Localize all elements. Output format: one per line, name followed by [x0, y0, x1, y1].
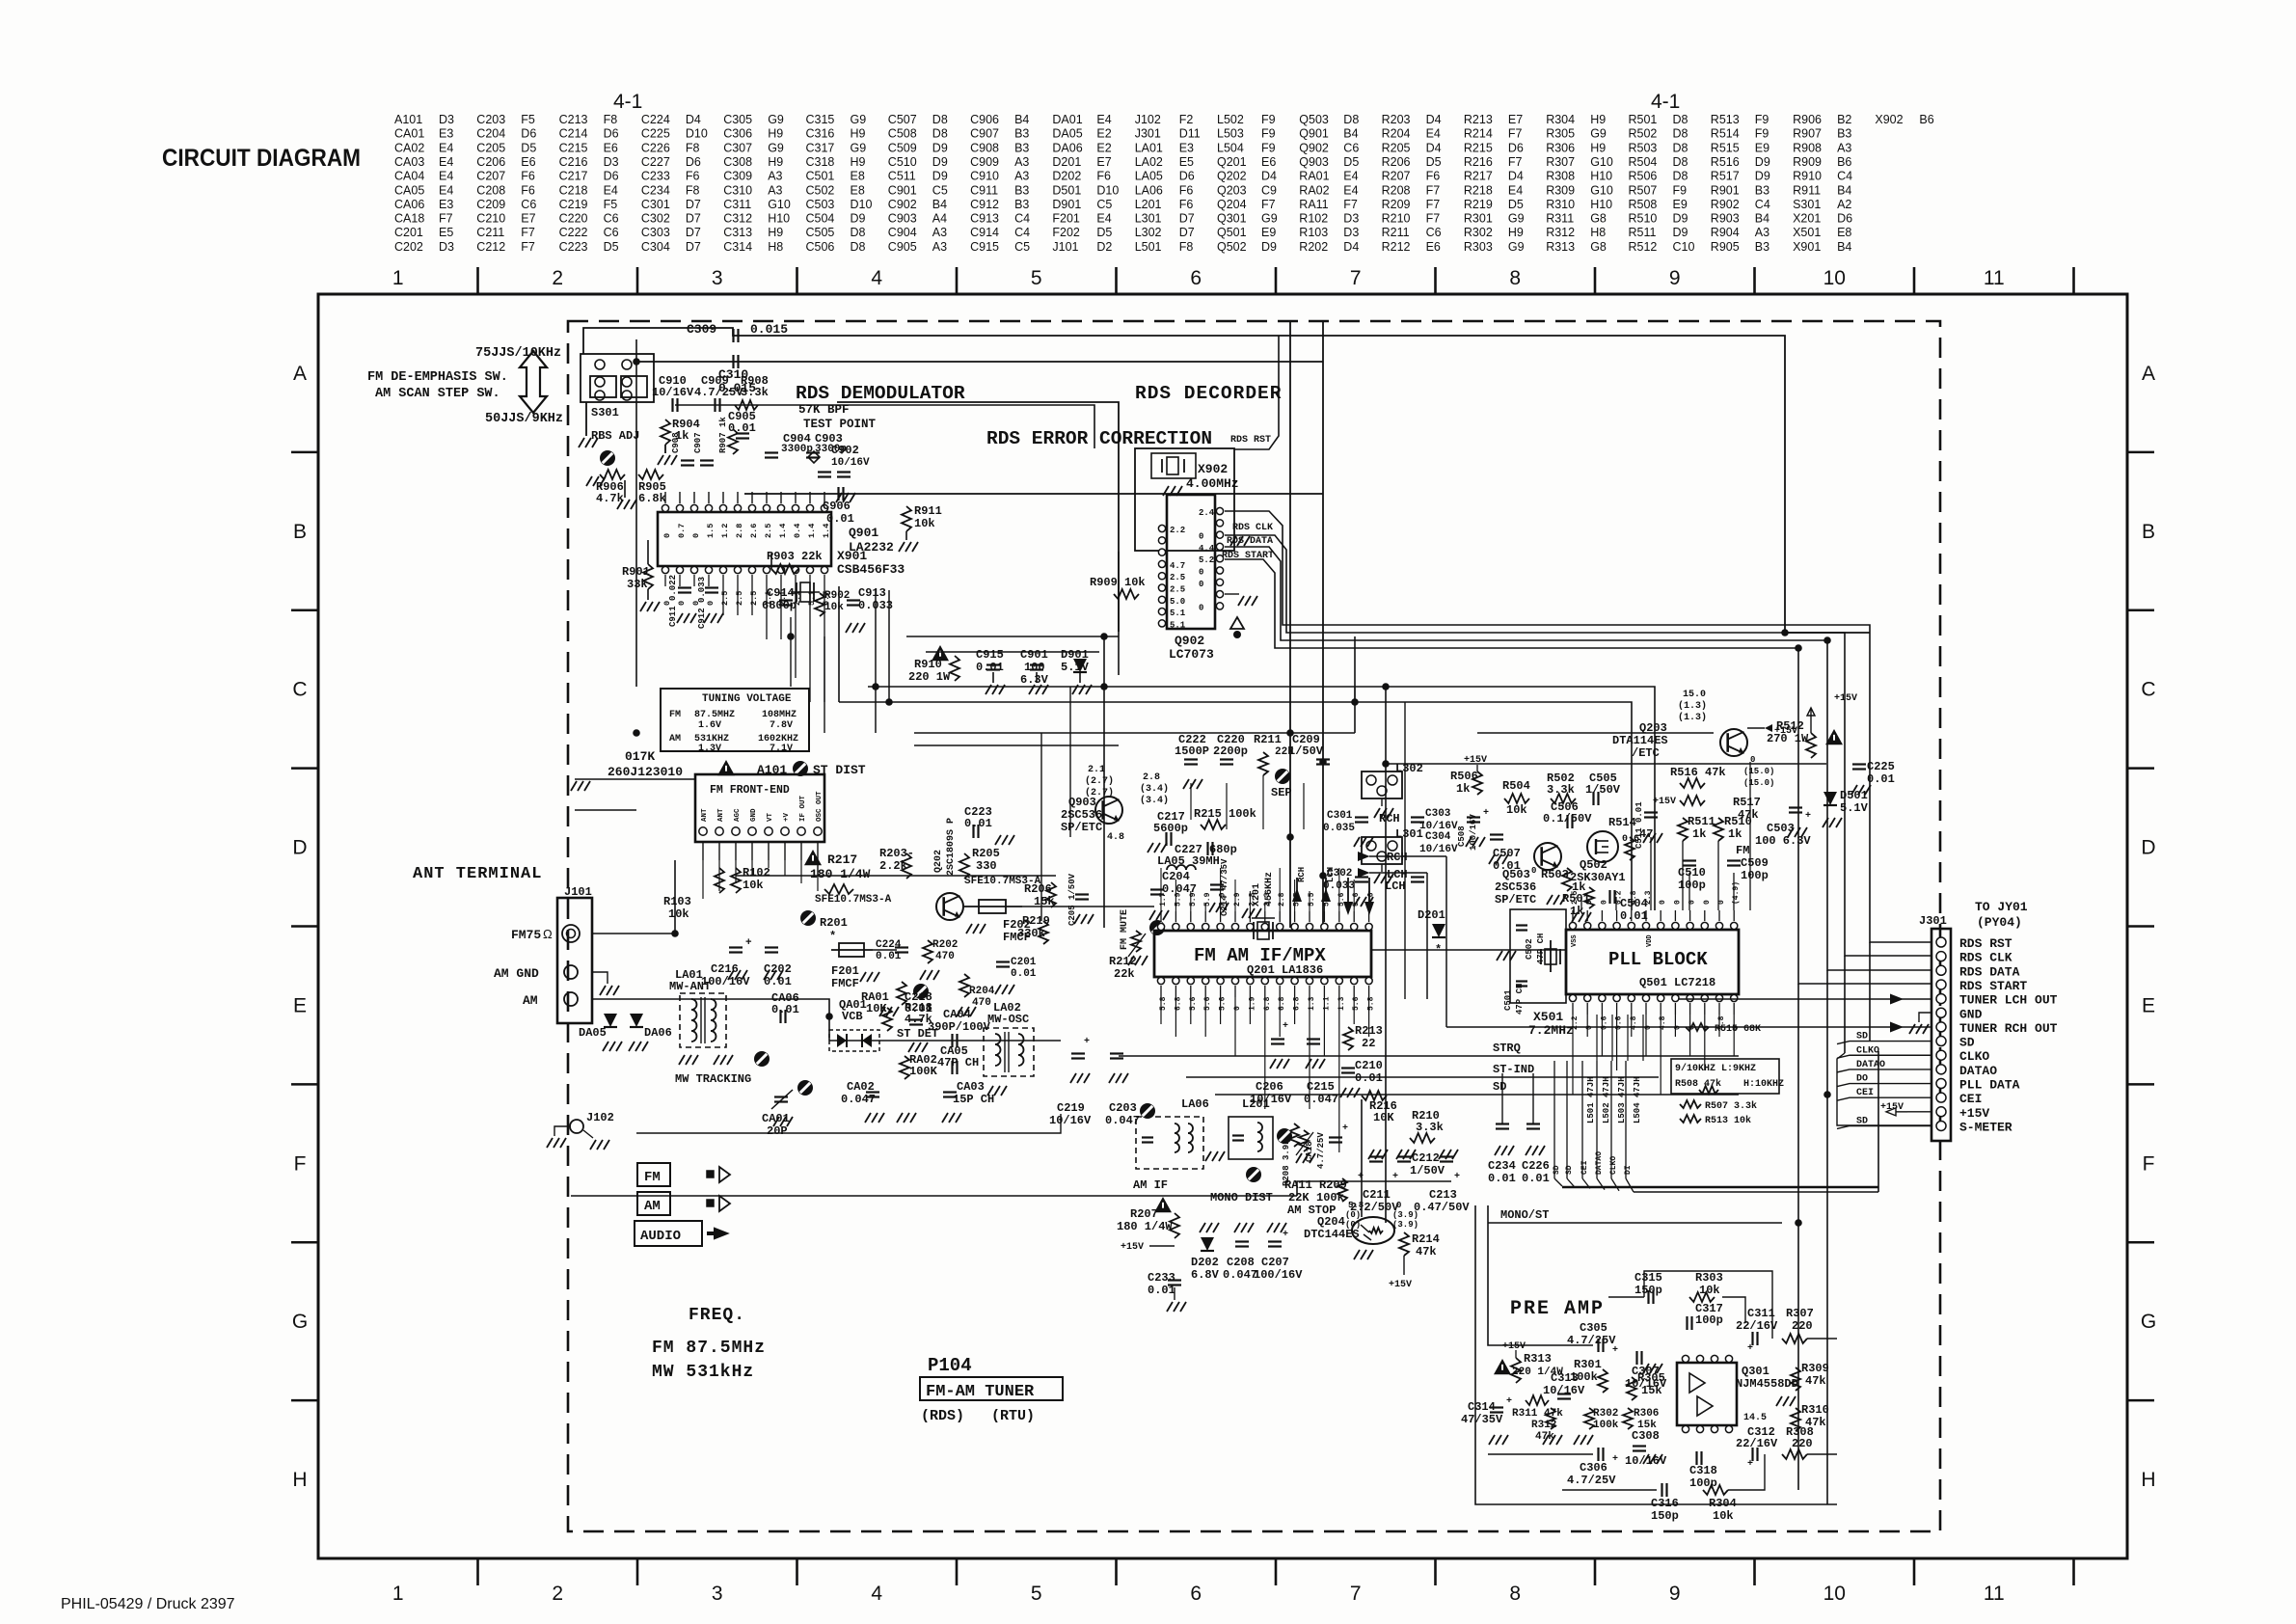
svg-text:R307: R307 [1546, 155, 1575, 169]
capacitor CA04 [928, 1008, 991, 1047]
svg-text:Ω: Ω [543, 927, 553, 941]
svg-text:1/50V: 1/50V [1585, 783, 1621, 797]
svg-text:B4: B4 [932, 198, 947, 211]
svg-text:R901: R901 [1711, 183, 1740, 197]
svg-text:CA18: CA18 [394, 212, 424, 226]
svg-text:F8: F8 [686, 141, 700, 154]
svg-text:R906: R906 [1793, 113, 1822, 126]
svg-text:0.01: 0.01 [1522, 1172, 1550, 1185]
svg-text:R214: R214 [1464, 127, 1493, 141]
svg-text:+15V: +15V [1834, 693, 1857, 704]
svg-text:(15.0): (15.0) [1743, 778, 1774, 788]
svg-text:11: 11 [1984, 1583, 2005, 1605]
capacitor C313 [1543, 1371, 1585, 1399]
resistor R507 [1680, 1100, 1757, 1112]
capacitor CA06 [771, 991, 799, 1023]
svg-text:1500P: 1500P [1175, 744, 1209, 758]
resistor R904 [658, 418, 700, 465]
svg-text:+: + [1283, 1230, 1288, 1240]
svg-text:H10: H10 [768, 212, 790, 226]
connector J101 [494, 885, 592, 1023]
transistor Q502 2SK30AY1 FET [1570, 831, 1639, 884]
svg-text:F6: F6 [521, 183, 535, 197]
svg-text:G9: G9 [851, 113, 867, 126]
svg-text:C905: C905 [888, 240, 917, 254]
svg-text:FM MUTE: FM MUTE [1120, 909, 1130, 950]
svg-text:FREQ.: FREQ. [689, 1306, 745, 1325]
svg-text:R511: R511 [1688, 815, 1715, 828]
transistor Q204 DTC144ES [1304, 1201, 1418, 1259]
svg-text:FM75: FM75 [511, 928, 541, 942]
svg-text:15P CH: 15P CH [953, 1093, 994, 1106]
wire SD bundle below PLL [1553, 1051, 1878, 1192]
capacitor C908 [671, 432, 694, 465]
svg-text:C208: C208 [476, 183, 505, 197]
svg-text:R512: R512 [1629, 240, 1658, 254]
svg-text:PRE AMP: PRE AMP [1510, 1298, 1605, 1320]
svg-text:+15V: +15V [1121, 1242, 1144, 1253]
capacitor C901 [1020, 648, 1049, 694]
svg-text:B3: B3 [1837, 127, 1851, 141]
svg-text:CA03: CA03 [394, 155, 424, 169]
svg-text:C318: C318 [806, 155, 835, 169]
svg-text:4: 4 [871, 1583, 882, 1605]
wire long bottom 2 [636, 1114, 1061, 1133]
capacitor C227 [1175, 842, 1237, 856]
svg-text:C205 1/50V: C205 1/50V [1067, 873, 1077, 926]
svg-text:Q901: Q901 [1299, 127, 1329, 141]
svg-text:C501: C501 [1503, 989, 1513, 1011]
svg-text:CEI: CEI [1580, 1160, 1589, 1175]
svg-text:D6: D6 [1179, 170, 1195, 183]
svg-text:3.3k: 3.3k [1547, 783, 1575, 797]
svg-text:C223: C223 [559, 240, 588, 254]
svg-text:R511: R511 [1629, 226, 1657, 239]
crystal X201 456KHz [1242, 872, 1275, 939]
wire vertical 1457 [1404, 702, 1406, 999]
svg-text:10k: 10k [824, 602, 844, 613]
wire horizontal mid 1 [868, 687, 1655, 910]
capacitor C217 [1148, 810, 1188, 853]
svg-text:C504: C504 [1620, 897, 1648, 910]
resistor R301 [1570, 1358, 1607, 1393]
svg-text:GND: GND [750, 808, 758, 822]
svg-text:X902: X902 [1198, 462, 1228, 476]
capacitor C503 [1755, 808, 1811, 849]
svg-text:TUNER LCH OUT: TUNER LCH OUT [1959, 993, 2058, 1008]
svg-text:5600p: 5600p [1153, 822, 1188, 835]
svg-text:D201: D201 [1418, 908, 1445, 922]
svg-text:5.1: 5.1 [1170, 609, 1186, 618]
wire long bottom 1 [571, 1195, 1297, 1197]
svg-text:100 6.3V: 100 6.3V [1755, 834, 1811, 848]
svg-text:R215: R215 [1464, 141, 1493, 154]
svg-text:GND: GND [1959, 1007, 1983, 1021]
svg-text:C226: C226 [641, 141, 670, 154]
capacitor C214 [1209, 858, 1229, 916]
wire Q204 collector vertical [1361, 1099, 1363, 1217]
svg-text:H: H [292, 1469, 307, 1491]
svg-text:2.5: 2.5 [764, 524, 773, 538]
resistor R213 C210 top [1340, 1024, 1383, 1097]
svg-text:0.01: 0.01 [1355, 1071, 1383, 1085]
svg-text:E8: E8 [1837, 226, 1851, 239]
svg-text:R301: R301 [1574, 1358, 1602, 1371]
resistor R215 [1194, 807, 1256, 829]
svg-text:5.6: 5.6 [1219, 996, 1228, 1011]
capacitor C306 [1567, 1448, 1618, 1487]
svg-text:CSB456F33: CSB456F33 [837, 562, 905, 577]
svg-text:D9: D9 [932, 141, 948, 154]
svg-text:4.00MHz: 4.00MHz [1186, 476, 1239, 491]
capacitor C202 [764, 948, 792, 989]
svg-text:C210: C210 [476, 212, 505, 226]
capacitor C303 [1411, 808, 1458, 832]
svg-text:1.6V: 1.6V [698, 720, 721, 731]
resistor R205 [959, 847, 1000, 879]
wire horizontal mid 4 [914, 744, 1119, 746]
svg-text:R503: R503 [1629, 141, 1658, 154]
svg-text:R218: R218 [1464, 183, 1493, 197]
svg-text:7: 7 [1350, 1583, 1362, 1605]
svg-text:X501: X501 [1533, 1010, 1563, 1024]
svg-text:2.5: 2.5 [735, 591, 744, 606]
wire AM stop bus [1297, 1181, 1451, 1196]
svg-text:C906: C906 [823, 500, 851, 513]
svg-text:180 1/4W: 180 1/4W [810, 867, 871, 881]
svg-text:F7: F7 [1426, 183, 1441, 197]
screw RBS ADJ [591, 429, 639, 466]
capacitor C201 [995, 957, 1037, 994]
svg-text:C908: C908 [970, 141, 999, 154]
svg-text:220: 220 [1792, 1437, 1813, 1450]
capacitor C223 [964, 805, 1014, 845]
svg-text:47/35V: 47/35V [1461, 1413, 1503, 1426]
svg-text:R905: R905 [1711, 240, 1740, 254]
svg-text:B2: B2 [1837, 113, 1851, 126]
svg-text:R513: R513 [1711, 113, 1740, 126]
svg-text:0.01: 0.01 [905, 1002, 932, 1015]
wire vertical bus 2 [1322, 322, 1324, 928]
svg-text:10K: 10K [866, 1002, 887, 1015]
svg-text:270 1W: 270 1W [1767, 732, 1809, 745]
svg-text:C218: C218 [559, 183, 588, 197]
coil can L201 [1229, 1097, 1273, 1182]
svg-text:R207: R207 [1382, 170, 1411, 183]
svg-text:B: B [293, 521, 307, 543]
svg-text:0.01: 0.01 [1867, 772, 1895, 786]
svg-text:D6: D6 [1508, 141, 1524, 154]
svg-text:R206: R206 [1382, 155, 1411, 169]
svg-text:0.035: 0.035 [1323, 823, 1355, 834]
svg-text:RA11: RA11 [1284, 1178, 1312, 1192]
svg-text:F9: F9 [1261, 141, 1276, 154]
svg-text:F6: F6 [521, 170, 535, 183]
svg-text:D8: D8 [1673, 113, 1688, 126]
svg-text:C201: C201 [1011, 957, 1037, 968]
switch S301 [581, 354, 654, 420]
resistor R210 [1410, 1109, 1444, 1143]
svg-text:F2: F2 [1179, 113, 1194, 126]
svg-text:F7: F7 [439, 212, 453, 226]
svg-text:D6: D6 [521, 127, 536, 141]
svg-text:E4: E4 [1426, 127, 1441, 141]
svg-text:180 1/4W: 180 1/4W [1117, 1220, 1173, 1233]
svg-text:8: 8 [1509, 1583, 1521, 1605]
svg-text:SD: SD [1565, 1165, 1574, 1175]
svg-text:10k: 10k [668, 907, 689, 921]
svg-text:C215: C215 [559, 141, 588, 154]
svg-text:1k: 1k [1456, 782, 1470, 796]
svg-text:10K: 10K [1373, 1111, 1394, 1124]
svg-text:DA06: DA06 [1052, 141, 1082, 154]
capacitor C216 [701, 937, 752, 988]
svg-text:D202: D202 [1191, 1256, 1219, 1269]
svg-text:330: 330 [976, 859, 997, 873]
svg-text:C201: C201 [394, 226, 423, 239]
wire top bus 2 [636, 361, 1323, 363]
svg-text:F7: F7 [1343, 198, 1358, 211]
ground J101 [592, 972, 608, 984]
svg-text:(1.3): (1.3) [1678, 712, 1707, 723]
svg-text:R303: R303 [1695, 1271, 1723, 1285]
svg-text:R211: R211 [1382, 226, 1410, 239]
svg-text:D6: D6 [686, 155, 701, 169]
svg-text:R212: R212 [1382, 240, 1411, 254]
svg-text:CLKO: CLKO [1609, 1156, 1618, 1175]
svg-text:R903 22k: R903 22k [767, 550, 823, 563]
capacitor C233 [1148, 1271, 1186, 1312]
svg-text:470: 470 [935, 951, 955, 962]
svg-text:B3: B3 [1014, 141, 1029, 154]
svg-text:C203: C203 [476, 113, 505, 126]
wire IF to front-end horizontals [873, 949, 897, 951]
resistor R517 [1653, 796, 1761, 822]
svg-text:CA02: CA02 [847, 1080, 875, 1094]
wire vertical 1500 [1445, 856, 1447, 1027]
svg-text:VT: VT [767, 812, 774, 822]
svg-text:C508: C508 [1457, 826, 1467, 847]
svg-text:0: 0 [1600, 900, 1608, 905]
wire PLL top leads [1650, 837, 1652, 910]
svg-text:TUNING VOLTAGE: TUNING VOLTAGE [702, 693, 792, 705]
svg-text:Q501 LC7218: Q501 LC7218 [1639, 976, 1715, 989]
svg-text:*: * [829, 930, 836, 943]
svg-text:LA02: LA02 [1135, 155, 1163, 169]
svg-text:22: 22 [1362, 1037, 1375, 1050]
svg-text:ANT: ANT [717, 808, 725, 822]
zener D901 [1061, 648, 1092, 694]
resistor R501 [1562, 887, 1594, 922]
svg-text:X901: X901 [1793, 240, 1821, 254]
wire vertical 1080 [1040, 733, 1042, 921]
svg-text:(RTU): (RTU) [991, 1408, 1035, 1424]
wire front-end osc down [817, 860, 819, 876]
coil can L302 [1362, 762, 1423, 826]
svg-text:+: + [1483, 808, 1489, 819]
svg-text:H: H [2141, 1469, 2155, 1491]
wire IF bottom pin drops [1160, 997, 1162, 1024]
svg-text:PLL BLOCK: PLL BLOCK [1608, 949, 1708, 970]
svg-text:H9: H9 [851, 155, 866, 169]
svg-text:RDS START: RDS START [1959, 979, 2027, 993]
svg-text:R201: R201 [820, 916, 848, 930]
svg-text:A3: A3 [932, 226, 947, 239]
svg-text:0.6: 0.6 [1615, 1015, 1624, 1030]
svg-text:5.1V: 5.1V [1061, 661, 1090, 674]
capacitor C915 [976, 648, 1005, 694]
capacitor C204 [1149, 870, 1197, 920]
svg-text:AM: AM [523, 993, 538, 1008]
svg-text:100k: 100k [1593, 1420, 1619, 1431]
svg-text:FMCF: FMCF [831, 977, 859, 990]
svg-text:C906: C906 [970, 113, 999, 126]
svg-text:D8: D8 [932, 127, 948, 141]
svg-text:100k: 100k [1316, 1191, 1344, 1204]
svg-text:D4: D4 [1426, 113, 1442, 126]
svg-text:RDS START: RDS START [1222, 551, 1274, 561]
wire vertical from demod 870 [838, 586, 840, 702]
svg-text:2.9: 2.9 [1219, 892, 1228, 907]
svg-text:(2.7): (2.7) [1085, 775, 1114, 787]
svg-text:0.01: 0.01 [964, 817, 992, 830]
svg-text:1k: 1k [1692, 827, 1706, 841]
svg-text:7.1V: 7.1V [770, 744, 793, 754]
svg-text:4.7/25V: 4.7/25V [1567, 1334, 1616, 1347]
capacitor C906b [823, 487, 854, 526]
arrow RCH out [1358, 851, 1446, 864]
capacitor C218 [905, 990, 932, 1052]
svg-text:8: 8 [1509, 267, 1521, 289]
svg-text:PLL DATA: PLL DATA [1959, 1078, 2020, 1093]
svg-text:390P/100V: 390P/100V [928, 1020, 991, 1034]
svg-text:1.3V: 1.3V [698, 744, 721, 754]
svg-text:C312: C312 [723, 212, 752, 226]
wire front-end top [575, 778, 695, 780]
svg-text:1.5: 1.5 [706, 524, 716, 538]
svg-text:0.6: 0.6 [1600, 1015, 1608, 1030]
svg-text:S-METER: S-METER [1959, 1120, 2012, 1134]
svg-text:C: C [292, 679, 307, 701]
resistor R208 [1282, 1123, 1299, 1186]
svg-text:C902: C902 [831, 444, 859, 457]
svg-text:C211: C211 [476, 226, 504, 239]
svg-text:F9: F9 [1673, 183, 1688, 197]
coil LA05 39MH [1157, 854, 1220, 870]
svg-text:Q201 LA1836: Q201 LA1836 [1247, 963, 1323, 977]
capacitor C509 [1727, 856, 1769, 882]
svg-text:AGC: AGC [734, 808, 742, 822]
svg-text:H9: H9 [1508, 226, 1524, 239]
svg-text:D10: D10 [686, 127, 708, 141]
capacitor C301 [1323, 810, 1373, 847]
resistor RA01 [861, 990, 892, 1031]
svg-text:87.5MHZ: 87.5MHZ [694, 710, 735, 720]
diode DA05 [579, 1014, 622, 1051]
svg-text:10: 10 [1823, 267, 1846, 289]
transistor Q503b 2SC536 [1495, 843, 1561, 907]
svg-text:6800p: 6800p [762, 599, 797, 612]
svg-text:6: 6 [1190, 267, 1202, 289]
svg-text:E6: E6 [1261, 155, 1276, 169]
capacitor C206 C215 labels [1250, 1021, 1338, 1106]
crystal X901 CSB456F33 [791, 549, 905, 602]
svg-text:RCH: RCH [1297, 867, 1307, 882]
svg-text:F5: F5 [604, 198, 618, 211]
svg-text:SD: SD [1493, 1080, 1506, 1094]
svg-text:C6: C6 [1426, 226, 1442, 239]
svg-text:C912: C912 [970, 198, 999, 211]
svg-text:0: 0 [1703, 900, 1712, 905]
svg-text:C915: C915 [970, 240, 999, 254]
svg-text:C507: C507 [888, 113, 917, 126]
svg-text:D8: D8 [1673, 155, 1688, 169]
svg-text:D201: D201 [1052, 155, 1081, 169]
svg-text:PHIL-05429 / Druck 2397: PHIL-05429 / Druck 2397 [61, 1596, 235, 1612]
svg-text:F7: F7 [1426, 198, 1441, 211]
svg-text:RCH: RCH [1379, 812, 1400, 826]
svg-text:E2: E2 [1096, 141, 1111, 154]
svg-text:C210: C210 [1355, 1059, 1383, 1072]
svg-text:FM-AM TUNER: FM-AM TUNER [926, 1383, 1035, 1401]
svg-text:C314: C314 [1468, 1400, 1496, 1414]
svg-text:D8: D8 [1673, 141, 1688, 154]
pin voltage marks Q901 [662, 524, 831, 606]
svg-text:DATAO: DATAO [1595, 1151, 1604, 1175]
svg-text:017K: 017K [625, 749, 655, 764]
resistor RA02 [897, 1053, 938, 1123]
svg-text:R911: R911 [1793, 183, 1821, 197]
svg-text:L504 47JH: L504 47JH [1633, 1076, 1642, 1123]
svg-text:10k: 10k [1699, 1284, 1720, 1297]
svg-text:E9: E9 [1261, 226, 1276, 239]
svg-text:10/16V: 10/16V [652, 386, 694, 399]
ground below R905 [624, 480, 626, 498]
svg-text:1/50V: 1/50V [1288, 744, 1324, 758]
svg-text:RA11: RA11 [1299, 198, 1328, 211]
svg-text:ANT: ANT [701, 808, 709, 822]
svg-text:C502: C502 [806, 183, 835, 197]
capacitor C314 [1461, 1396, 1512, 1445]
svg-text:RDS CLK: RDS CLK [1232, 523, 1273, 533]
resistor R217 [804, 850, 871, 894]
capacitor C225 [1851, 760, 1895, 795]
svg-text:7.8V: 7.8V [770, 720, 793, 731]
svg-text:20P: 20P [767, 1124, 788, 1138]
svg-text:B4: B4 [1755, 212, 1769, 226]
capacitor C507 [1489, 835, 1521, 874]
svg-text:0.047: 0.047 [1105, 1114, 1140, 1127]
IC A101 FM FRONT-END [695, 774, 824, 860]
capacitor C506 [1543, 800, 1592, 828]
svg-text:C914: C914 [970, 226, 999, 239]
svg-text:D7: D7 [686, 240, 701, 254]
svg-text:A3: A3 [768, 183, 782, 197]
svg-text:C308: C308 [723, 155, 752, 169]
svg-text:E4: E4 [604, 183, 618, 197]
svg-text:R302: R302 [1464, 226, 1493, 239]
svg-text:E8: E8 [851, 170, 865, 183]
svg-text:Q901: Q901 [849, 526, 878, 540]
capacitor C903 [806, 432, 847, 458]
resistor R309 [1791, 1362, 1829, 1391]
svg-text:C202: C202 [394, 240, 423, 254]
svg-text:L502 47JH: L502 47JH [1602, 1076, 1611, 1123]
svg-text:0.01: 0.01 [1011, 968, 1037, 980]
svg-text:FM 87.5MHz: FM 87.5MHz [652, 1339, 766, 1358]
svg-text:C216: C216 [711, 962, 739, 976]
resistor R514 [1608, 816, 1653, 860]
